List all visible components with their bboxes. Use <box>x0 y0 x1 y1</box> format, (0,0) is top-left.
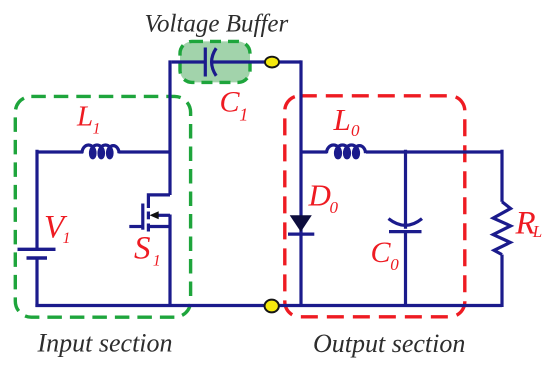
svg-text:C: C <box>220 85 241 118</box>
wire: top bus from switch node to diode node through C1 <box>172 60 301 63</box>
label: RL <box>515 206 543 242</box>
label: Input section <box>37 329 173 358</box>
gate bar <box>141 204 144 230</box>
svg-text:L: L <box>333 102 351 137</box>
output section box (red dashed) <box>285 96 465 317</box>
wire: bottom bus <box>35 304 502 307</box>
label: V1 <box>44 209 71 247</box>
wire: switch source vertical down to bottom bus <box>168 215 171 307</box>
capacitor C1 (straight + curved plate) <box>205 48 216 77</box>
svg-text:L: L <box>76 101 93 133</box>
label: C0 <box>371 236 400 274</box>
svg-text:0: 0 <box>351 121 360 140</box>
label: Output section <box>313 329 465 358</box>
label: C1 <box>220 85 249 124</box>
wire: battery branch vertical (lower) <box>35 258 38 307</box>
resistor RL (zigzag) <box>493 202 510 255</box>
svg-text:Input section: Input section <box>37 329 173 358</box>
node: bottom yellow junction <box>265 300 279 313</box>
svg-text:1: 1 <box>153 253 161 270</box>
label: L0 <box>333 102 361 140</box>
wire: L1 horizontal from battery to switch branch <box>37 150 170 153</box>
diode D0 <box>288 215 314 234</box>
drain stub and lead <box>148 195 170 208</box>
inductor L1 <box>82 145 119 158</box>
svg-text:D: D <box>308 178 331 213</box>
gate lead <box>129 225 143 228</box>
wire: load branch vertical (upper) <box>500 150 503 202</box>
wire: diode branch vertical (top bus down to bottom bus) <box>299 60 302 306</box>
wire: battery branch vertical (upper) <box>35 150 38 249</box>
svg-text:1: 1 <box>63 230 71 247</box>
channel middle stub <box>147 212 150 220</box>
svg-text:0: 0 <box>390 255 399 274</box>
svg-text:0: 0 <box>330 198 339 217</box>
svg-text:L: L <box>532 222 542 241</box>
wire: load branch vertical (lower) <box>500 255 503 307</box>
label: D0 <box>308 178 339 217</box>
battery V1 <box>18 249 56 258</box>
svg-text:C: C <box>371 236 392 269</box>
inductor L0 <box>327 145 366 158</box>
wire: left vertical of switch branch (top wire down to MOSFET drain) <box>168 60 171 195</box>
capacitor C0 (curved + straight plate) <box>389 219 423 232</box>
svg-text:Output section: Output section <box>313 329 465 358</box>
label: Voltage Buffer <box>145 11 289 38</box>
input section box (green dashed) <box>15 96 190 317</box>
label: S1 <box>134 230 161 269</box>
svg-text:1: 1 <box>93 121 101 138</box>
source lead <box>148 225 170 228</box>
wire: C0 branch vertical (lower) <box>404 232 407 306</box>
svg-text:Voltage Buffer: Voltage Buffer <box>145 11 289 38</box>
wire: L0 horizontal from diode node to load branch <box>301 150 502 153</box>
voltage buffer box (green filled dashed box around C1) <box>180 41 250 82</box>
source stub <box>147 224 150 232</box>
svg-text:1: 1 <box>239 104 248 124</box>
node: top yellow junction <box>265 57 279 68</box>
wire: C0 branch vertical (upper) <box>404 150 407 229</box>
body line with arrow <box>156 214 170 217</box>
label: L1 <box>76 101 101 138</box>
svg-text:S: S <box>134 230 151 266</box>
transistor S1 (MOSFET) <box>129 195 170 232</box>
